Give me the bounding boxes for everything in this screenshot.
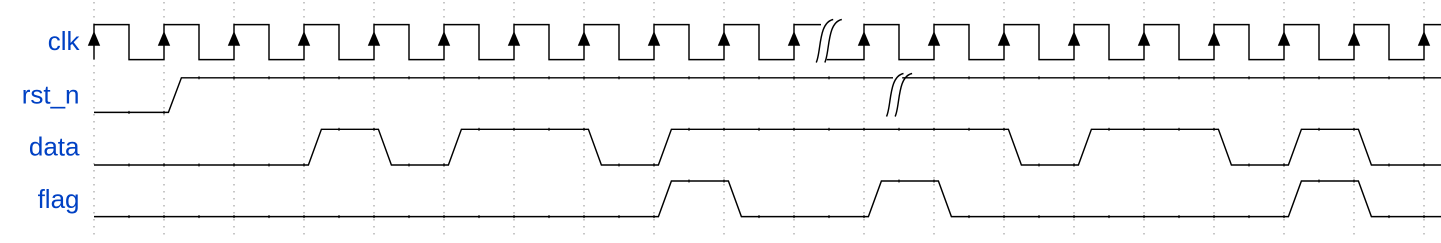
svg-text:data: data — [29, 132, 80, 162]
data waveform — [94, 129, 1441, 165]
flag waveform — [94, 181, 1441, 217]
rst_n waveform — [94, 78, 893, 113]
clk timeline break — [816, 20, 842, 63]
clk rising-edge arrows — [88, 31, 1430, 46]
clk waveform — [94, 25, 1441, 60]
rst_n brick ticks — [129, 76, 1424, 114]
rst_n timeline break — [887, 74, 913, 117]
flag brick ticks — [129, 180, 1424, 219]
svg-text:clk: clk — [48, 26, 81, 56]
data brick ticks — [129, 128, 1424, 167]
svg-text:rst_n: rst_n — [22, 80, 80, 110]
svg-text:flag: flag — [38, 184, 80, 214]
